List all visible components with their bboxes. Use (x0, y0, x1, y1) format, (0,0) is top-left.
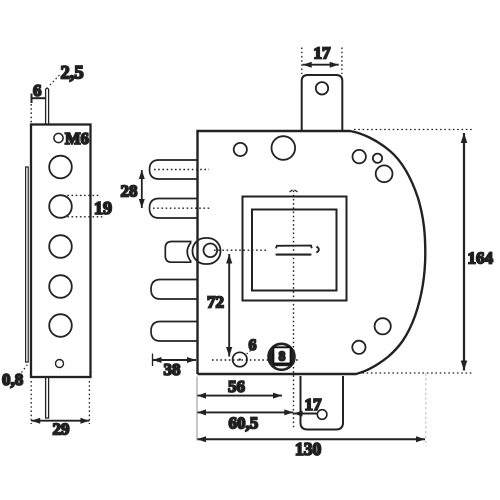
body hole right C (376, 165, 393, 182)
dimension 60,5 (197, 409, 293, 415)
dimension 28 (bolt spacing) (139, 170, 145, 208)
dimension 56 (197, 393, 282, 399)
key box outer (243, 197, 347, 301)
dimension 130 (197, 436, 425, 442)
latch follower housing (193, 238, 221, 264)
svg-text:17: 17 (305, 395, 323, 414)
leader for 2,5 (50, 75, 60, 86)
deadbolt 2 (150, 199, 198, 219)
vertical centerline x=293.5 (293, 191, 295, 429)
body hole right A (353, 150, 366, 163)
dimension 17 top (302, 48, 342, 75)
leader latch to keyhole (214, 249, 268, 251)
dia 19 extension dotted lines (67, 195, 102, 216)
svg-text:0,8: 0,8 (2, 370, 23, 389)
svg-text:38: 38 (164, 360, 181, 379)
body hole right B (373, 154, 382, 163)
svg-text:28: 28 (121, 182, 138, 201)
svg-text:56: 56 (228, 377, 245, 396)
leader for 0,8 (22, 365, 28, 373)
lock body outline (198, 131, 426, 374)
svg-text:8: 8 (279, 349, 286, 364)
dimension 6 (pin offset) (32, 94, 46, 104)
faceplate hole 4 (49, 275, 72, 298)
notch marks above key box (290, 190, 298, 192)
svg-text:6: 6 (33, 81, 42, 100)
key slot right mark (316, 247, 318, 253)
body hole right E (352, 341, 365, 354)
centerline through bottom holes (212, 359, 300, 361)
leader for 6 (246, 351, 251, 356)
svg-text:72: 72 (207, 293, 224, 312)
svg-text:29: 29 (53, 420, 70, 439)
faceplate hole 2 (49, 195, 72, 218)
svg-text:2,5: 2,5 (61, 64, 84, 84)
key slot lower (277, 254, 311, 256)
extension line right max bottom (425, 374, 427, 447)
svg-text:19: 19 (94, 198, 112, 218)
svg-text:M6: M6 (65, 129, 89, 148)
side-view thin plate (0,8 mm) (26, 167, 29, 362)
body hole big top (272, 136, 296, 160)
svg-text:130: 130 (295, 439, 322, 459)
dimension 38 (153, 354, 197, 367)
faceplate hole 5 (49, 314, 72, 337)
bottom pin of faceplate (46, 377, 49, 418)
key box inner (252, 210, 337, 291)
deadbolt 4 (151, 322, 198, 342)
deadbolt 1 (150, 160, 198, 179)
dimension 29 (31, 381, 89, 424)
top fixing tab (302, 75, 343, 131)
side-view faceplate body (31, 125, 91, 378)
top pin of faceplate (46, 88, 49, 124)
deadbolt 3 (151, 280, 198, 300)
body hole right D (375, 318, 391, 334)
svg-text:60,5: 60,5 (229, 414, 259, 433)
extension line left edge bottom (196, 377, 198, 441)
latch bolt (165, 242, 191, 263)
bottom fixing tab (301, 376, 344, 430)
faceplate hole 1 (49, 156, 72, 179)
svg-text:164: 164 (468, 249, 494, 268)
deadbolt 2 centerline (153, 207, 211, 209)
dimension 17 bottom (294, 411, 318, 417)
faceplate hole 3 (49, 235, 72, 258)
dimension 72 (226, 254, 232, 357)
M6 threaded hole (54, 133, 63, 142)
extension dotted for dim 6 (30, 104, 32, 125)
cylinder hole 8 (269, 344, 295, 370)
body hole small top-left (234, 143, 247, 156)
dimension 164 (354, 130, 473, 374)
key slot upper (276, 246, 312, 249)
svg-text:17: 17 (314, 44, 332, 63)
deadbolt 1 centerline (154, 169, 209, 171)
small fixing hole (56, 360, 64, 368)
hole 6 (233, 352, 247, 366)
